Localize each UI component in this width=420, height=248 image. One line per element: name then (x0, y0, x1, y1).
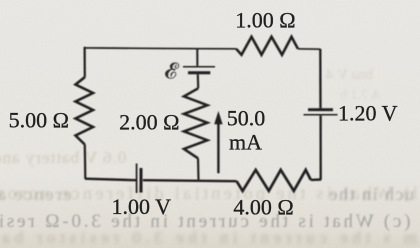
wire: bottom middle segment (143, 180, 237, 181)
wire: middle branch below EMF (197, 74, 199, 88)
bleed-through mirrored text line (faint, mid-left) (0, 148, 126, 168)
battery EMF short thick plate (188, 71, 210, 74)
battery B2 1.20 V long thin plate (304, 114, 338, 116)
resistor R1 1.00 ohm zigzag (236, 37, 298, 55)
current arrow head (214, 111, 222, 124)
bleed fragment right (darker) (328, 184, 414, 205)
wire: top side left segment (85, 47, 237, 49)
bleed fragment left (darker) (0, 184, 71, 205)
battery B1 1.00 V short thick plate (140, 168, 143, 193)
bleed-through mirrored text line (row above bottom) (0, 183, 418, 204)
battery B1 1.00 V long thin plate (136, 164, 138, 194)
resistor R5 5.00 ohm zigzag (76, 77, 94, 144)
faint bleed marks right of circuit (326, 67, 373, 84)
resistor R2 2.00 ohm zigzag (184, 88, 208, 158)
wire: right side upper (319, 49, 322, 109)
current arrow shaft (217, 121, 219, 173)
EMF script E symbol (165, 63, 179, 79)
wire: right side lower (319, 116, 321, 180)
bleed-through mirrored text line (bottom, "(c) What is the current in the 3.0-ohm resi") (0, 211, 410, 233)
wire: left side upper (83, 47, 85, 77)
wire: top side right segment (298, 48, 320, 50)
wire: left side lower (84, 145, 87, 179)
bleed-through partial strip at very bottom edge (0, 228, 417, 248)
battery EMF long thin plate (183, 66, 215, 68)
wire: bottom right stub (311, 178, 321, 181)
wire: bottom left segment (85, 179, 136, 181)
battery B2 1.20 V short thick plate (308, 108, 333, 111)
wire: middle branch bottom (197, 158, 200, 179)
resistor R4 4.00 ohm zigzag (237, 170, 311, 191)
wire: middle branch top stub (196, 48, 198, 66)
